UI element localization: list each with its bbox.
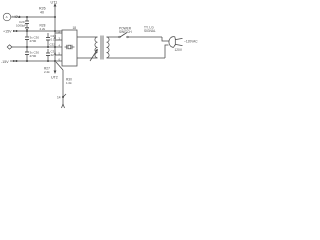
- wire stub pin: [55, 39, 62, 41]
- wire mid rail: [12, 46, 62, 48]
- node: [16, 60, 18, 62]
- plug P1 body: [169, 37, 174, 48]
- arrow +15V: [13, 30, 17, 32]
- svg-text:UT1: UT1: [51, 0, 58, 4]
- node: [16, 30, 18, 32]
- capacitor C31: [47, 49, 49, 53]
- wire secondary bottom: [109, 57, 165, 59]
- svg-text:2.2k: 2.2k: [44, 70, 50, 74]
- node: [54, 37, 56, 39]
- wire jog: [162, 37, 169, 41]
- svg-text:UT2: UT2: [51, 75, 58, 79]
- node top rail junction: [19, 16, 21, 18]
- wire stub pin: [55, 32, 62, 34]
- node: [47, 60, 49, 62]
- node: [54, 53, 56, 55]
- module box U1: [62, 30, 77, 66]
- terminal fork: [62, 104, 65, 108]
- node top rail junction3: [54, 16, 56, 18]
- svg-text:+15V: +15V: [3, 30, 12, 34]
- svg-text:18: 18: [73, 26, 77, 30]
- svg-text:A: A: [6, 15, 8, 19]
- wire output vertical: [62, 70, 64, 104]
- svg-text:SIGNAL: SIGNAL: [144, 29, 156, 33]
- svg-text:40: 40: [40, 10, 44, 14]
- node: [54, 46, 56, 48]
- arrow -15V: [13, 60, 17, 62]
- arrow UT1: [54, 3, 57, 7]
- svg-text:1.0k: 1.0k: [66, 81, 72, 85]
- capacitor C30b: [26, 47, 28, 52]
- svg-text:14: 14: [57, 96, 61, 100]
- wire box to transformer bottom: [77, 57, 96, 59]
- switch S1: [120, 33, 127, 38]
- wire: [11, 16, 55, 18]
- node 14: [62, 96, 64, 98]
- transformer T1 primary: [95, 37, 98, 58]
- plug prong top: [175, 38, 182, 39]
- wire stub pin: [55, 54, 62, 56]
- capacitor C30a: [26, 31, 28, 37]
- diode D1 triangle: [26, 28, 29, 31]
- crystal symbol: [65, 46, 67, 48]
- ground diamond: [7, 45, 12, 49]
- svg-text:22: 22: [51, 53, 55, 57]
- wire diagonal to output: [56, 62, 63, 70]
- node: [54, 30, 56, 32]
- wire box to transformer top: [77, 36, 96, 38]
- svg-text:120V: 120V: [175, 48, 183, 52]
- capacitor C29: [26, 17, 28, 21]
- svg-text:4700: 4700: [30, 39, 37, 43]
- node: [26, 30, 28, 32]
- wire up to plug: [165, 45, 169, 58]
- svg-text:0.1: 0.1: [51, 37, 56, 41]
- node: [54, 60, 56, 62]
- wire -15V rail: [10, 60, 55, 62]
- source circle B1: [3, 13, 11, 21]
- wire secondary top: [109, 36, 119, 38]
- node: [26, 60, 28, 62]
- wire +15V rail: [16, 30, 62, 32]
- node top rail junction2: [26, 16, 28, 18]
- svg-text:~120VAC: ~120VAC: [184, 39, 198, 43]
- wire stub pin: [55, 60, 62, 62]
- wire after switch: [129, 36, 163, 38]
- arrow UT2 down: [54, 61, 56, 71]
- transformer core: [100, 36, 102, 60]
- wire tick: [63, 94, 66, 97]
- svg-text:-15V: -15V: [1, 60, 9, 64]
- svg-text:2.2k: 2.2k: [40, 27, 46, 31]
- svg-text:C32: C32: [50, 43, 56, 47]
- capacitor C28: [47, 33, 49, 38]
- svg-text:4700: 4700: [30, 54, 37, 58]
- svg-text:SWITCH: SWITCH: [119, 30, 132, 34]
- svg-text:+40V: +40V: [12, 15, 20, 19]
- transformer secondary: [107, 37, 110, 58]
- node: [26, 46, 28, 48]
- node: [47, 46, 49, 48]
- wire UT1 vertical: [54, 6, 56, 61]
- svg-text:1000pF: 1000pF: [16, 23, 26, 27]
- arrow through primary: [90, 50, 97, 61]
- plug prong bottom: [175, 44, 182, 45]
